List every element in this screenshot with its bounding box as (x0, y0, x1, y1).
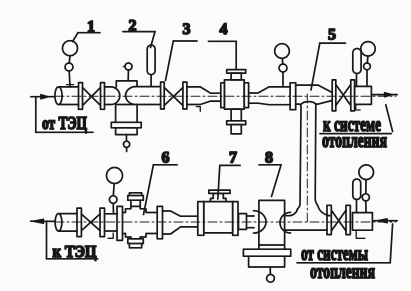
svg-text:отопления: отопления (310, 261, 375, 283)
svg-text:от ТЭЦ: от ТЭЦ (42, 113, 87, 133)
svg-text:к ТЭЦ: к ТЭЦ (53, 242, 97, 261)
svg-text:отопления: отопления (322, 130, 387, 152)
svg-text:5: 5 (328, 27, 336, 44)
svg-text:3: 3 (183, 21, 191, 38)
svg-text:4: 4 (220, 21, 228, 38)
svg-text:7: 7 (229, 150, 237, 167)
